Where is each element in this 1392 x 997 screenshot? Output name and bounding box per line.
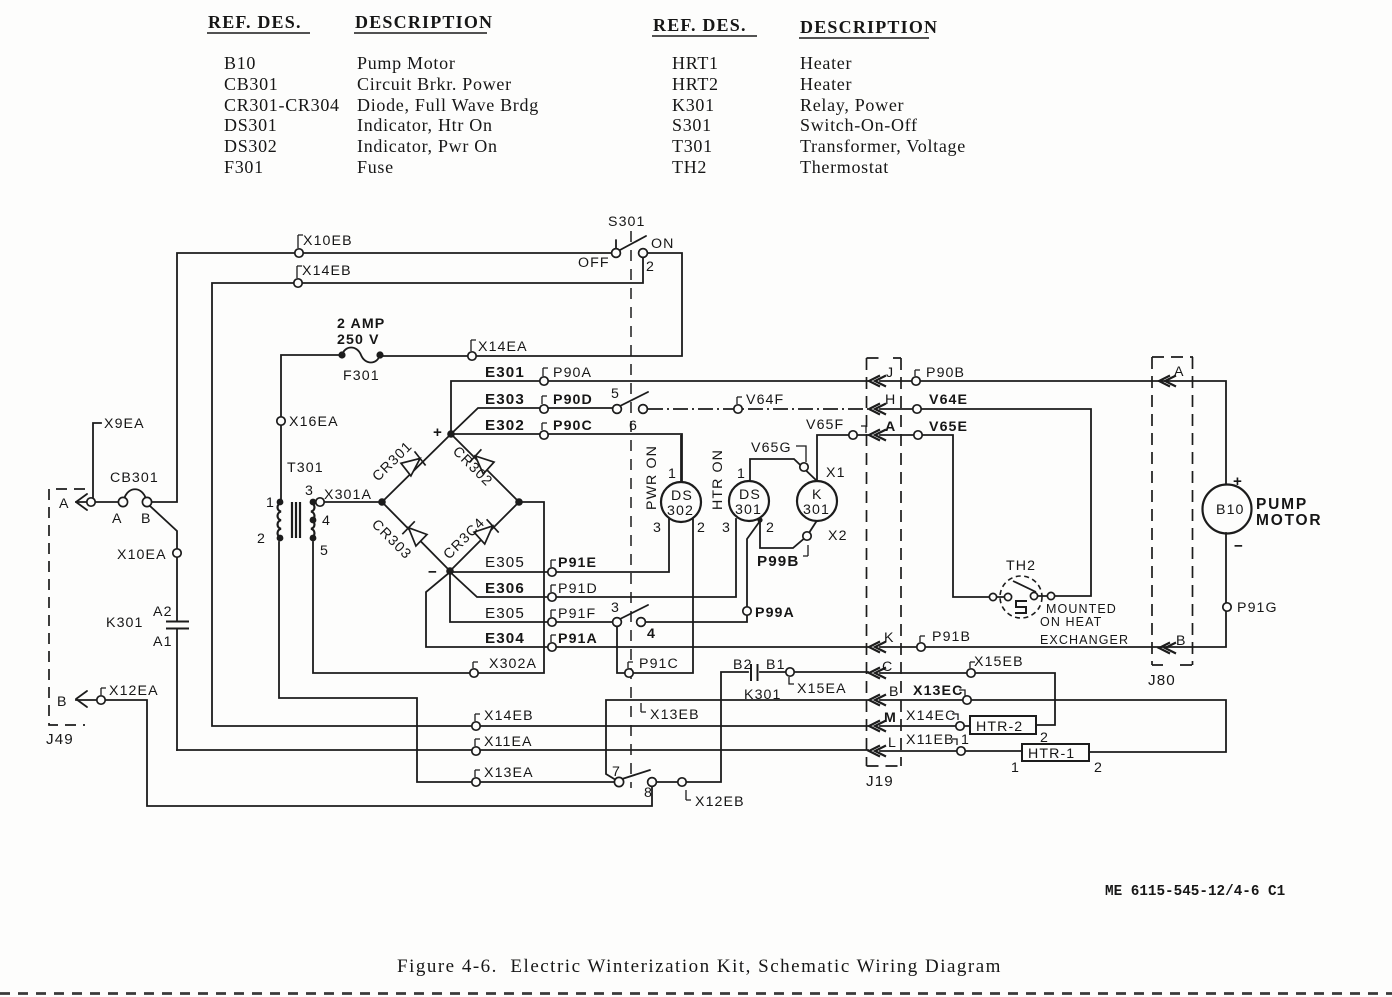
transformer T301 pin stubs — [280, 502, 313, 540]
svg-text:B10: B10 — [224, 53, 256, 73]
svg-text:Thermostat: Thermostat — [800, 157, 889, 177]
svg-text:Figure 4-6. Electric Winteriz: Figure 4-6. Electric Winterization Kit, … — [397, 956, 1002, 977]
svg-text:P90B: P90B — [926, 365, 965, 381]
svg-text:F301: F301 — [224, 157, 264, 177]
svg-text:X13EA: X13EA — [484, 765, 534, 781]
svg-text:T301: T301 — [287, 460, 324, 476]
wire X9EA: bracket drop to J49-A node — [93, 423, 101, 498]
svg-text:P91E: P91E — [558, 555, 597, 571]
lamp DS301 body — [729, 481, 769, 521]
wire X15EA: K301 contact B1 to J19 pin C — [760, 671, 868, 673]
terminal P91G — [1223, 603, 1231, 611]
svg-text:2: 2 — [257, 531, 266, 547]
svg-text:REF. DES.: REF. DES. — [653, 15, 747, 35]
wire: J49 pin A to CB301 A — [76, 501, 118, 503]
transformer T301 primary winding — [278, 502, 315, 540]
svg-text:REF. DES.: REF. DES. — [208, 12, 302, 32]
terminal V65E — [914, 431, 922, 439]
svg-text:J: J — [886, 365, 894, 381]
motor B10 body — [1203, 485, 1252, 534]
svg-text:A: A — [112, 511, 123, 527]
svg-text:+: + — [1233, 473, 1243, 490]
svg-text:MOUNTED: MOUNTED — [1046, 602, 1117, 616]
terminal X15EA — [786, 668, 794, 676]
transformer T301 secondary winding — [311, 503, 314, 537]
svg-text:TH2: TH2 — [1006, 558, 1036, 574]
diode CR301 — [401, 451, 426, 476]
terminal V65F — [849, 431, 857, 439]
circuit breaker CB301 contact B — [142, 497, 151, 506]
svg-text:301: 301 — [803, 502, 830, 518]
bridge node left — [378, 498, 386, 506]
svg-text:V64E: V64E — [929, 392, 968, 408]
svg-text:CB301: CB301 — [224, 74, 279, 94]
svg-text:Circuit Brkr. Power: Circuit Brkr. Power — [357, 74, 512, 94]
svg-text:ME 6115-545-12/4-6 C1: ME 6115-545-12/4-6 C1 — [1105, 884, 1285, 900]
svg-text:−: − — [1234, 538, 1244, 555]
wire: K301 coil A1 to X11EA run — [176, 630, 178, 750]
svg-text:4: 4 — [647, 626, 656, 642]
svg-text:X13EB: X13EB — [650, 707, 700, 723]
lamp DS302 pin 1 lead — [680, 435, 682, 482]
terminal P91D — [548, 593, 556, 601]
svg-text:H: H — [885, 392, 896, 408]
terminal V64F — [734, 405, 742, 413]
wire P99B: DS301 pin 2 to K301 coil X2 — [760, 520, 816, 548]
svg-text:Heater: Heater — [800, 74, 852, 94]
svg-text:P91A: P91A — [558, 631, 598, 647]
svg-text:Pump Motor: Pump Motor — [357, 53, 456, 73]
terminal X14EC — [956, 722, 964, 730]
svg-text:X14EA: X14EA — [478, 339, 528, 355]
svg-text:DS301: DS301 — [224, 115, 278, 135]
svg-text:DS302: DS302 — [224, 136, 278, 156]
svg-text:DS: DS — [739, 487, 761, 503]
wire: S301 contact 2 to X14EA — [380, 253, 682, 356]
svg-text:302: 302 — [667, 503, 694, 519]
circuit breaker CB301 contact A — [118, 497, 127, 506]
svg-text:Indicator, Htr On: Indicator, Htr On — [357, 115, 493, 135]
terminal X12EA — [97, 696, 105, 704]
switch S301 section 3-4 arm — [620, 605, 648, 619]
svg-text:7: 7 — [612, 764, 621, 780]
svg-text:A2: A2 — [153, 604, 173, 620]
wire X12EB: S301 contact 8 to K301 contact B2 — [656, 672, 748, 782]
svg-text:B: B — [141, 511, 152, 527]
svg-text:Transformer, Voltage: Transformer, Voltage — [800, 136, 966, 156]
svg-text:PWR ON: PWR ON — [644, 445, 660, 510]
S301 ganged linkage line — [630, 231, 632, 788]
heater HTR-1 box — [1022, 744, 1089, 761]
terminal P91F — [548, 618, 556, 626]
svg-text:K301: K301 — [672, 95, 715, 115]
wire P91B: J19 pin K to J80 pin B, B10 motor - — [880, 533, 1226, 647]
svg-text:Switch-On-Off: Switch-On-Off — [800, 115, 918, 135]
svg-text:+: + — [433, 424, 443, 441]
svg-text:P99B: P99B — [757, 553, 799, 570]
J19 pin A chevron — [869, 430, 886, 441]
thermostat TH2 thermal element — [1015, 601, 1027, 613]
terminal X11EB — [957, 747, 965, 755]
svg-text:1: 1 — [737, 466, 746, 482]
svg-text:A1: A1 — [153, 634, 173, 650]
svg-text:X14EB: X14EB — [484, 708, 534, 724]
svg-text:L: L — [888, 735, 897, 751]
J19 pin J chevron — [869, 376, 886, 387]
svg-text:−: − — [428, 564, 438, 581]
connector J49 outline — [49, 489, 85, 725]
terminal X301A — [316, 498, 324, 506]
wire X14EB: S301 contact 2 down, left rail, bottom run to J19 pin M — [212, 258, 868, 726]
svg-text:2 AMP: 2 AMP — [337, 316, 385, 332]
svg-text:5: 5 — [611, 386, 620, 402]
diode CR303 — [402, 521, 427, 546]
terminal X12EB — [678, 778, 686, 786]
wire E305b: bridge - node to P91F, S301 contact 3 — [450, 572, 613, 622]
svg-text:X10EB: X10EB — [303, 233, 353, 249]
svg-text:HTR-1: HTR-1 — [1028, 746, 1075, 762]
relay coil K301 plates — [166, 622, 758, 682]
svg-text:EXCHANGER: EXCHANGER — [1040, 633, 1129, 647]
svg-text:1: 1 — [668, 466, 677, 482]
wire X15EB: J19 pin C to HTR-2 pin 2 — [880, 673, 1055, 725]
svg-text:2: 2 — [697, 520, 706, 536]
terminal P90D — [540, 405, 548, 413]
svg-text:X11EA: X11EA — [484, 734, 533, 750]
svg-text:TH2: TH2 — [672, 157, 707, 177]
bridge rectifier edges — [382, 434, 519, 571]
bridge node + — [447, 430, 455, 438]
node DS301 pin 2 — [757, 517, 762, 522]
transformer pin dots — [277, 351, 763, 574]
diode CR304 — [474, 519, 499, 544]
fuse F301 terminal dots — [338, 351, 345, 358]
svg-text:E305: E305 — [485, 554, 525, 571]
svg-text:A: A — [59, 496, 70, 512]
J19 pin L chevron — [869, 746, 886, 757]
bridge node - — [446, 567, 454, 575]
svg-text:X12EA: X12EA — [109, 683, 159, 699]
thermostat TH2 dashed enclosure — [1000, 576, 1042, 618]
svg-text:P91F: P91F — [558, 606, 596, 622]
wire: T301 pin 3 / X301A to bridge left node — [317, 501, 382, 503]
svg-text:4: 4 — [322, 513, 331, 529]
wire E301: bridge + node to P90A, J19 pin J — [451, 381, 868, 434]
svg-text:ON: ON — [651, 236, 674, 252]
reference designator table — [208, 12, 966, 177]
wire X14EC: J19 pin M to HTR-2 pin 1 — [880, 725, 970, 727]
terminal X9EA — [87, 498, 95, 506]
terminal P90A — [540, 377, 548, 385]
svg-text:3: 3 — [722, 520, 731, 536]
svg-text:X10EA: X10EA — [117, 547, 167, 563]
svg-text:J49: J49 — [46, 731, 74, 748]
switch S301 contact 2 — [639, 249, 648, 258]
wire E306: bridge - node to P91D, DS301 pin 3 — [450, 519, 736, 597]
svg-text:DESCRIPTION: DESCRIPTION — [355, 12, 493, 32]
svg-text:HTR ON: HTR ON — [710, 449, 726, 510]
schematic wires — [76, 253, 1226, 806]
svg-text:8: 8 — [644, 785, 653, 801]
svg-text:250 V: 250 V — [337, 332, 380, 348]
svg-text:B1: B1 — [766, 657, 786, 673]
svg-text:MOTOR: MOTOR — [1256, 512, 1322, 529]
svg-text:K301: K301 — [106, 615, 144, 631]
label brackets — [101, 235, 975, 800]
svg-text:DS: DS — [671, 488, 693, 504]
J19 pin B chevron — [869, 695, 886, 706]
J19 pin M chevron — [869, 721, 886, 732]
svg-text:M: M — [884, 710, 897, 726]
terminal X2 of K301 — [803, 532, 811, 540]
svg-text:C: C — [882, 659, 893, 675]
wire: T301 pin 2 to X13EA run, S301 contact 7 — [279, 542, 615, 782]
svg-text:CR303: CR303 — [368, 517, 414, 563]
svg-text:P90A: P90A — [553, 365, 592, 381]
J49 pin B arrow — [76, 691, 87, 707]
terminal P91C — [625, 669, 633, 677]
wire E303: bridge + node to P90D, S301 contact 5 — [451, 408, 613, 434]
wire X13EB: to J19 pin B, down to S301 contact 7 — [606, 700, 868, 780]
circuit breaker CB301 arc — [124, 489, 146, 499]
wire X10EB: S301 pole to CB301 B — [152, 253, 612, 502]
relay contact K301 B2-B1 bars — [751, 664, 758, 681]
svg-text:PUMP: PUMP — [1256, 496, 1308, 513]
svg-text:Fuse: Fuse — [357, 157, 394, 177]
terminal X15EB — [967, 669, 975, 677]
connector J19 dashed outline — [867, 358, 902, 766]
svg-text:K: K — [812, 487, 823, 503]
svg-text:X15EB: X15EB — [974, 654, 1024, 670]
svg-text:P91G: P91G — [1237, 600, 1278, 616]
svg-text:P91B: P91B — [932, 629, 971, 645]
thermostat TH2 outer right contact — [1047, 592, 1054, 599]
svg-text:X302A: X302A — [489, 656, 537, 672]
svg-text:6: 6 — [629, 418, 638, 434]
thermostat TH2 inner left contact — [1004, 593, 1011, 600]
wire: CB301 B down to K301 coil A2 — [150, 506, 177, 620]
switch S301 contact 4 — [637, 618, 646, 627]
svg-text:CR301-CR304: CR301-CR304 — [224, 95, 340, 115]
svg-text:Diode, Full Wave Brdg: Diode, Full Wave Brdg — [357, 95, 539, 115]
wire E302: bridge + node to P90C, DS302 pin 1 — [451, 434, 682, 482]
svg-text:E303: E303 — [485, 391, 525, 408]
svg-text:B: B — [889, 684, 900, 700]
page bottom edge — [0, 992, 1392, 995]
svg-text:5: 5 — [320, 543, 329, 559]
switch S301 section 1-2 arm — [620, 236, 646, 250]
svg-text:P90D: P90D — [553, 392, 593, 408]
heater HTR-2 box — [970, 716, 1036, 734]
terminal X14EA — [468, 352, 476, 360]
svg-text:CB301: CB301 — [110, 470, 159, 486]
terminal P90C — [540, 431, 548, 439]
J80 pin B chevron — [1159, 643, 1176, 654]
svg-text:X15EA: X15EA — [797, 681, 847, 697]
wire P90B: J19 pin J to B10 motor + — [880, 381, 1226, 484]
terminal X10EB — [295, 249, 303, 257]
svg-text:A: A — [1174, 364, 1185, 380]
svg-text:OFF: OFF — [578, 255, 610, 271]
J49 pin A arrow — [76, 494, 87, 510]
switch S301 pole 7 — [614, 777, 623, 786]
wire X13EC: J19 pin B to HTR-1 pin 2 — [880, 700, 1226, 752]
wire: TH2 contact gaps — [996, 596, 1047, 597]
svg-text:2: 2 — [646, 259, 655, 275]
svg-text:B: B — [1176, 633, 1187, 649]
svg-text:A: A — [885, 419, 896, 435]
wire V65F: K301 X1 up to J19 pin A — [817, 435, 868, 481]
svg-text:X13EC: X13EC — [913, 683, 963, 699]
switch S301 section 5-6 arm — [620, 392, 648, 406]
svg-text:J19: J19 — [866, 773, 894, 790]
switch S301 pole 1 — [612, 249, 621, 258]
wire V64F (dash-dot): S301 contact 6 to J19 pin H — [648, 408, 868, 410]
svg-text:P99A: P99A — [755, 605, 795, 621]
svg-text:X14EB: X14EB — [302, 263, 352, 279]
terminal P90B — [912, 377, 920, 385]
J19 pin K chevron — [869, 642, 886, 653]
wire X11EB: J19 pin L to HTR-1 pin 1 — [880, 750, 1022, 752]
svg-text:301: 301 — [735, 502, 762, 518]
switch S301 contact 6 — [639, 405, 648, 414]
terminal X13EA — [472, 778, 480, 786]
wire P99A: S301 contact 4 to DS301 pin 2 — [645, 521, 760, 622]
terminal X10EA — [173, 549, 181, 557]
terminal P99A — [743, 607, 751, 615]
terminal X14EB (top) — [294, 279, 302, 287]
svg-text:F301: F301 — [343, 368, 380, 384]
J19 pin C chevron — [869, 668, 886, 679]
terminal X16EA — [277, 417, 285, 425]
svg-text:1: 1 — [1011, 760, 1020, 776]
connector J19 chevrons — [869, 376, 1176, 757]
wire V65E: J19 pin A to thermostat TH2 left — [880, 435, 989, 597]
J80 pin A chevron — [1159, 376, 1176, 387]
wire E304: bridge - node to P91A, J19 pin K — [426, 572, 868, 647]
svg-text:P91D: P91D — [558, 581, 598, 597]
terminal V64E — [913, 405, 921, 413]
terminal P91B — [917, 643, 925, 651]
terminal X302A — [470, 669, 478, 677]
terminal P91A — [548, 643, 556, 651]
thermostat TH2 switch arm — [1013, 581, 1036, 592]
svg-text:T301: T301 — [672, 136, 713, 156]
svg-text:K301: K301 — [744, 687, 782, 703]
svg-text:X11EB: X11EB — [906, 732, 955, 748]
svg-text:Indicator, Pwr On: Indicator, Pwr On — [357, 136, 498, 156]
wire X11EA: to connector J19 pin L — [177, 749, 868, 751]
diode CR302 — [469, 449, 494, 474]
svg-text:E304: E304 — [485, 630, 525, 647]
svg-text:E302: E302 — [485, 417, 525, 434]
wire V64E: J19 pin H to thermostat TH2 right — [880, 409, 1091, 596]
svg-text:V65F: V65F — [806, 417, 844, 433]
svg-text:X16EA: X16EA — [289, 414, 339, 430]
svg-text:3: 3 — [653, 520, 662, 536]
svg-text:1: 1 — [266, 495, 275, 511]
bridge node right — [515, 498, 523, 506]
svg-text:E305: E305 — [485, 605, 525, 622]
svg-text:HRT1: HRT1 — [672, 53, 719, 73]
svg-text:X14EC: X14EC — [906, 708, 956, 724]
svg-text:E301: E301 — [485, 364, 525, 381]
svg-text:X301A: X301A — [324, 487, 372, 503]
svg-text:X1: X1 — [826, 465, 846, 481]
svg-text:2: 2 — [766, 520, 775, 536]
svg-text:HRT2: HRT2 — [672, 74, 719, 94]
transformer T301 core — [292, 502, 300, 538]
switch S301 pin 1 tick — [615, 240, 617, 249]
switch S301 pole 5 — [613, 405, 622, 414]
svg-text:2: 2 — [1040, 730, 1049, 746]
wire P91C: S301 contact 3 to DS302 pin 2 — [617, 519, 693, 673]
svg-text:S301: S301 — [608, 214, 646, 230]
schematic labels — [46, 214, 1322, 810]
svg-text:K: K — [884, 630, 895, 646]
switch S301 contact 8 — [648, 778, 657, 787]
svg-text:3: 3 — [305, 483, 314, 499]
svg-text:X2: X2 — [828, 528, 848, 544]
svg-text:V65G: V65G — [751, 440, 792, 456]
relay K301 body — [797, 481, 837, 521]
terminal X14EB (bottom) — [472, 722, 480, 730]
svg-text:B10: B10 — [1216, 502, 1245, 518]
svg-text:V64F: V64F — [746, 392, 784, 408]
lamp DS302 body — [661, 482, 701, 522]
svg-text:1: 1 — [961, 732, 970, 748]
svg-text:P91C: P91C — [639, 656, 679, 672]
svg-text:2: 2 — [1094, 760, 1103, 776]
thermostat TH2 outer left contact — [989, 593, 996, 600]
switch S301 pole 3 — [613, 618, 622, 627]
svg-text:V65E: V65E — [929, 419, 968, 435]
svg-text:HTR-2: HTR-2 — [976, 719, 1023, 735]
wire: fuse F301 to T301 pin 1 — [281, 355, 340, 500]
svg-text:B: B — [57, 694, 68, 710]
svg-text:DESCRIPTION: DESCRIPTION — [800, 17, 938, 37]
wire X12EA: J49 pin B to bottom rail, S301 contact 8 — [76, 700, 652, 806]
connector J80 dashed outline — [1152, 357, 1193, 665]
svg-text:X9EA: X9EA — [104, 416, 145, 432]
svg-text:B2: B2 — [733, 657, 753, 673]
svg-text:3: 3 — [611, 600, 620, 616]
svg-text:E306: E306 — [485, 580, 525, 597]
svg-text:Relay, Power: Relay, Power — [800, 95, 904, 115]
J19 pin H chevron — [869, 404, 886, 415]
terminal V65G — [800, 463, 808, 471]
svg-text:Heater: Heater — [800, 53, 852, 73]
fuse F301 element — [342, 348, 380, 363]
wire V65G: DS301 pin 1 to K301 X1 node — [750, 459, 817, 481]
wire X302A: T301 pin 5 to bridge right node — [313, 502, 544, 673]
svg-text:ON HEAT: ON HEAT — [1040, 615, 1102, 629]
terminal X13EC — [963, 696, 971, 704]
svg-text:X12EB: X12EB — [695, 794, 745, 810]
svg-text:P90C: P90C — [553, 418, 593, 434]
wire E305: bridge - node to P91E, DS302 pin 3 — [450, 519, 669, 572]
switch S301 section 7-8 arm — [622, 770, 650, 779]
svg-text:J80: J80 — [1148, 672, 1176, 689]
terminal circles — [87, 249, 1231, 787]
thermostat TH2 inner right contact — [1030, 592, 1037, 599]
svg-text:S301: S301 — [672, 115, 712, 135]
terminal P91E — [548, 568, 556, 576]
terminal X11EA — [472, 747, 480, 755]
